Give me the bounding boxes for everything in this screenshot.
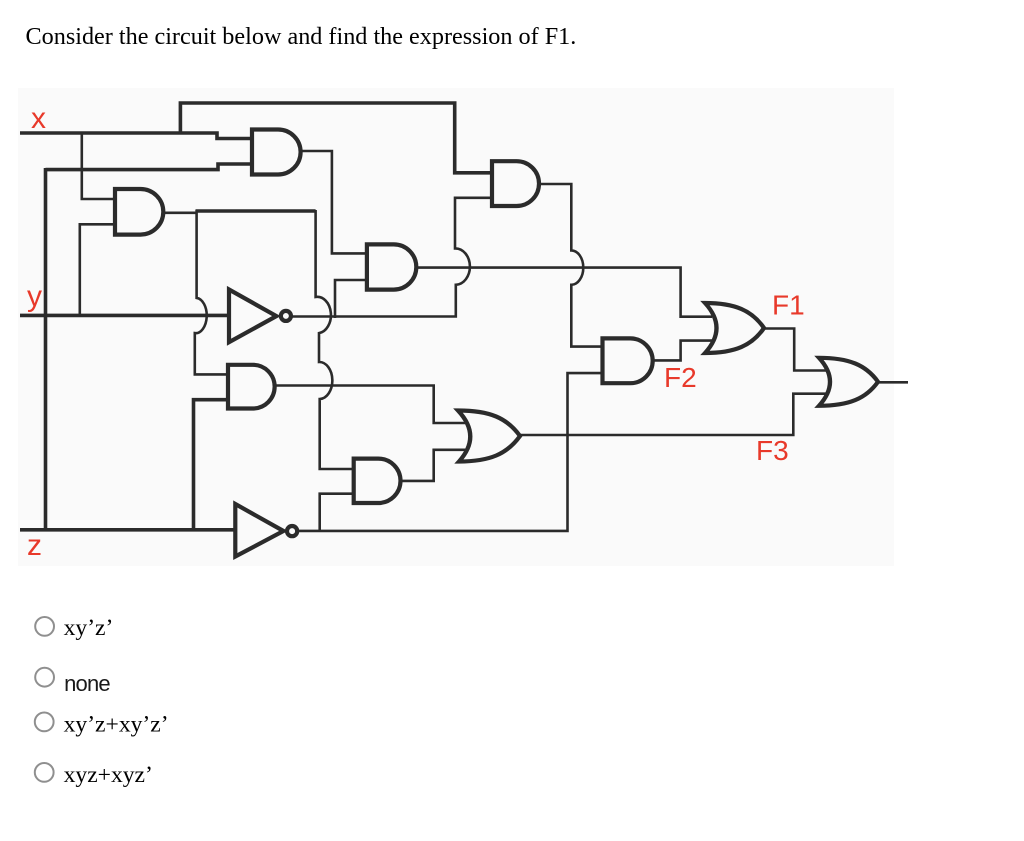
svg-text:z: z [27, 529, 42, 562]
svg-text:x: x [31, 102, 46, 135]
svg-text:Consider the circuit below and: Consider the circuit below and find the … [26, 23, 577, 50]
svg-text:none: none [64, 671, 110, 696]
svg-text:F2: F2 [664, 362, 697, 393]
svg-text:xy’z+xy’z’: xy’z+xy’z’ [64, 711, 169, 737]
svg-text:F1: F1 [772, 290, 805, 321]
svg-text:xyz+xyz’: xyz+xyz’ [64, 762, 153, 788]
svg-text:xy’z’: xy’z’ [64, 615, 114, 641]
svg-text:y: y [27, 280, 42, 313]
svg-text:F3: F3 [756, 435, 789, 466]
